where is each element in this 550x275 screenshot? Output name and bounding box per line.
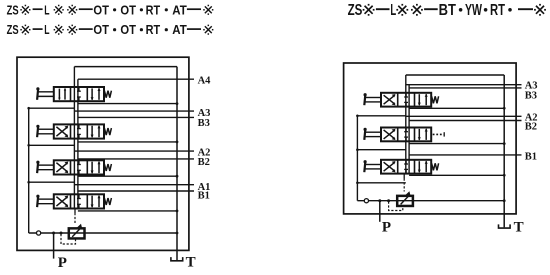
svg-text:RT: RT (146, 3, 161, 17)
svg-text:AT: AT (172, 3, 187, 17)
svg-text:B1: B1 (198, 190, 210, 201)
svg-text:ZS: ZS (348, 2, 363, 19)
svg-text:YW: YW (465, 2, 482, 19)
svg-text:T: T (186, 254, 196, 270)
svg-text:OT: OT (120, 23, 136, 37)
svg-text:L: L (44, 23, 50, 37)
svg-text:OT: OT (93, 23, 109, 37)
svg-text:B1: B1 (525, 152, 537, 163)
svg-text:BT: BT (439, 2, 457, 19)
svg-text:ZS: ZS (7, 3, 19, 17)
svg-text:A4: A4 (198, 75, 212, 86)
svg-text:AT: AT (172, 23, 187, 37)
svg-text:RT: RT (490, 2, 505, 19)
svg-text:OT: OT (93, 3, 109, 17)
svg-text:B3: B3 (525, 91, 537, 102)
svg-text:RT: RT (146, 23, 161, 37)
svg-text:B3: B3 (198, 118, 210, 129)
svg-text:B2: B2 (525, 122, 537, 133)
svg-text:ZS: ZS (7, 23, 19, 37)
svg-text:L: L (390, 2, 396, 19)
svg-text:L: L (44, 3, 50, 17)
svg-text:T: T (514, 220, 524, 236)
svg-text:OT: OT (120, 3, 136, 17)
svg-text:P: P (382, 220, 391, 236)
svg-text:B2: B2 (198, 157, 210, 168)
svg-text:P: P (58, 255, 67, 270)
